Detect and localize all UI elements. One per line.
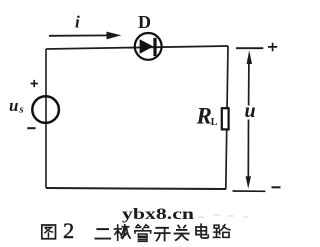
svg-text:u: u <box>9 96 18 115</box>
wire left (source branch) <box>45 49 47 188</box>
caption char lu (circuit/road) <box>213 225 229 238</box>
svg-text:L: L <box>211 117 218 128</box>
caption char er (two) <box>95 229 110 238</box>
wire bottom <box>46 188 226 189</box>
wire top (node from source to diode to top-right corner) <box>46 46 228 49</box>
svg-text:ybx8.cn: ybx8.cn <box>122 206 194 223</box>
source + sign <box>31 80 38 87</box>
svg-text:R: R <box>196 103 212 128</box>
diode anode triangle <box>140 39 154 54</box>
svg-text:i: i <box>75 13 80 32</box>
- sign bottom right <box>272 186 281 188</box>
caption char dian (electric) <box>196 224 208 238</box>
+ sign top right <box>268 43 277 52</box>
source - sign <box>27 127 35 129</box>
svg-text:2: 2 <box>63 218 74 243</box>
caption char kai (open) <box>155 228 170 241</box>
label RL <box>196 103 218 128</box>
svg-text:u: u <box>245 100 256 122</box>
resistor RL box <box>222 108 229 129</box>
svg-text:D: D <box>138 12 151 32</box>
u measurement arrow top tick <box>236 47 263 49</box>
caption char guan (tube) <box>135 225 151 242</box>
caption: hand-drawn CJK strokes (no CJK font available) <box>42 218 230 243</box>
svg-text:s: s <box>18 104 23 116</box>
watermark faint trailing marks <box>198 215 248 217</box>
diode D (circle envelope) <box>135 33 162 60</box>
caption char guan (close) <box>175 226 189 241</box>
caption char tu (figure) <box>42 225 56 239</box>
u measurement arrow bottom tick <box>233 190 266 192</box>
current arrow i <box>49 32 121 40</box>
u measurement arrow (double headed vertical) <box>246 50 252 188</box>
source us circle <box>32 96 59 123</box>
label us <box>9 96 24 116</box>
diode cathode bar <box>153 38 156 56</box>
wire right (load branch) <box>226 46 228 189</box>
caption char ji (pole) <box>114 225 130 240</box>
